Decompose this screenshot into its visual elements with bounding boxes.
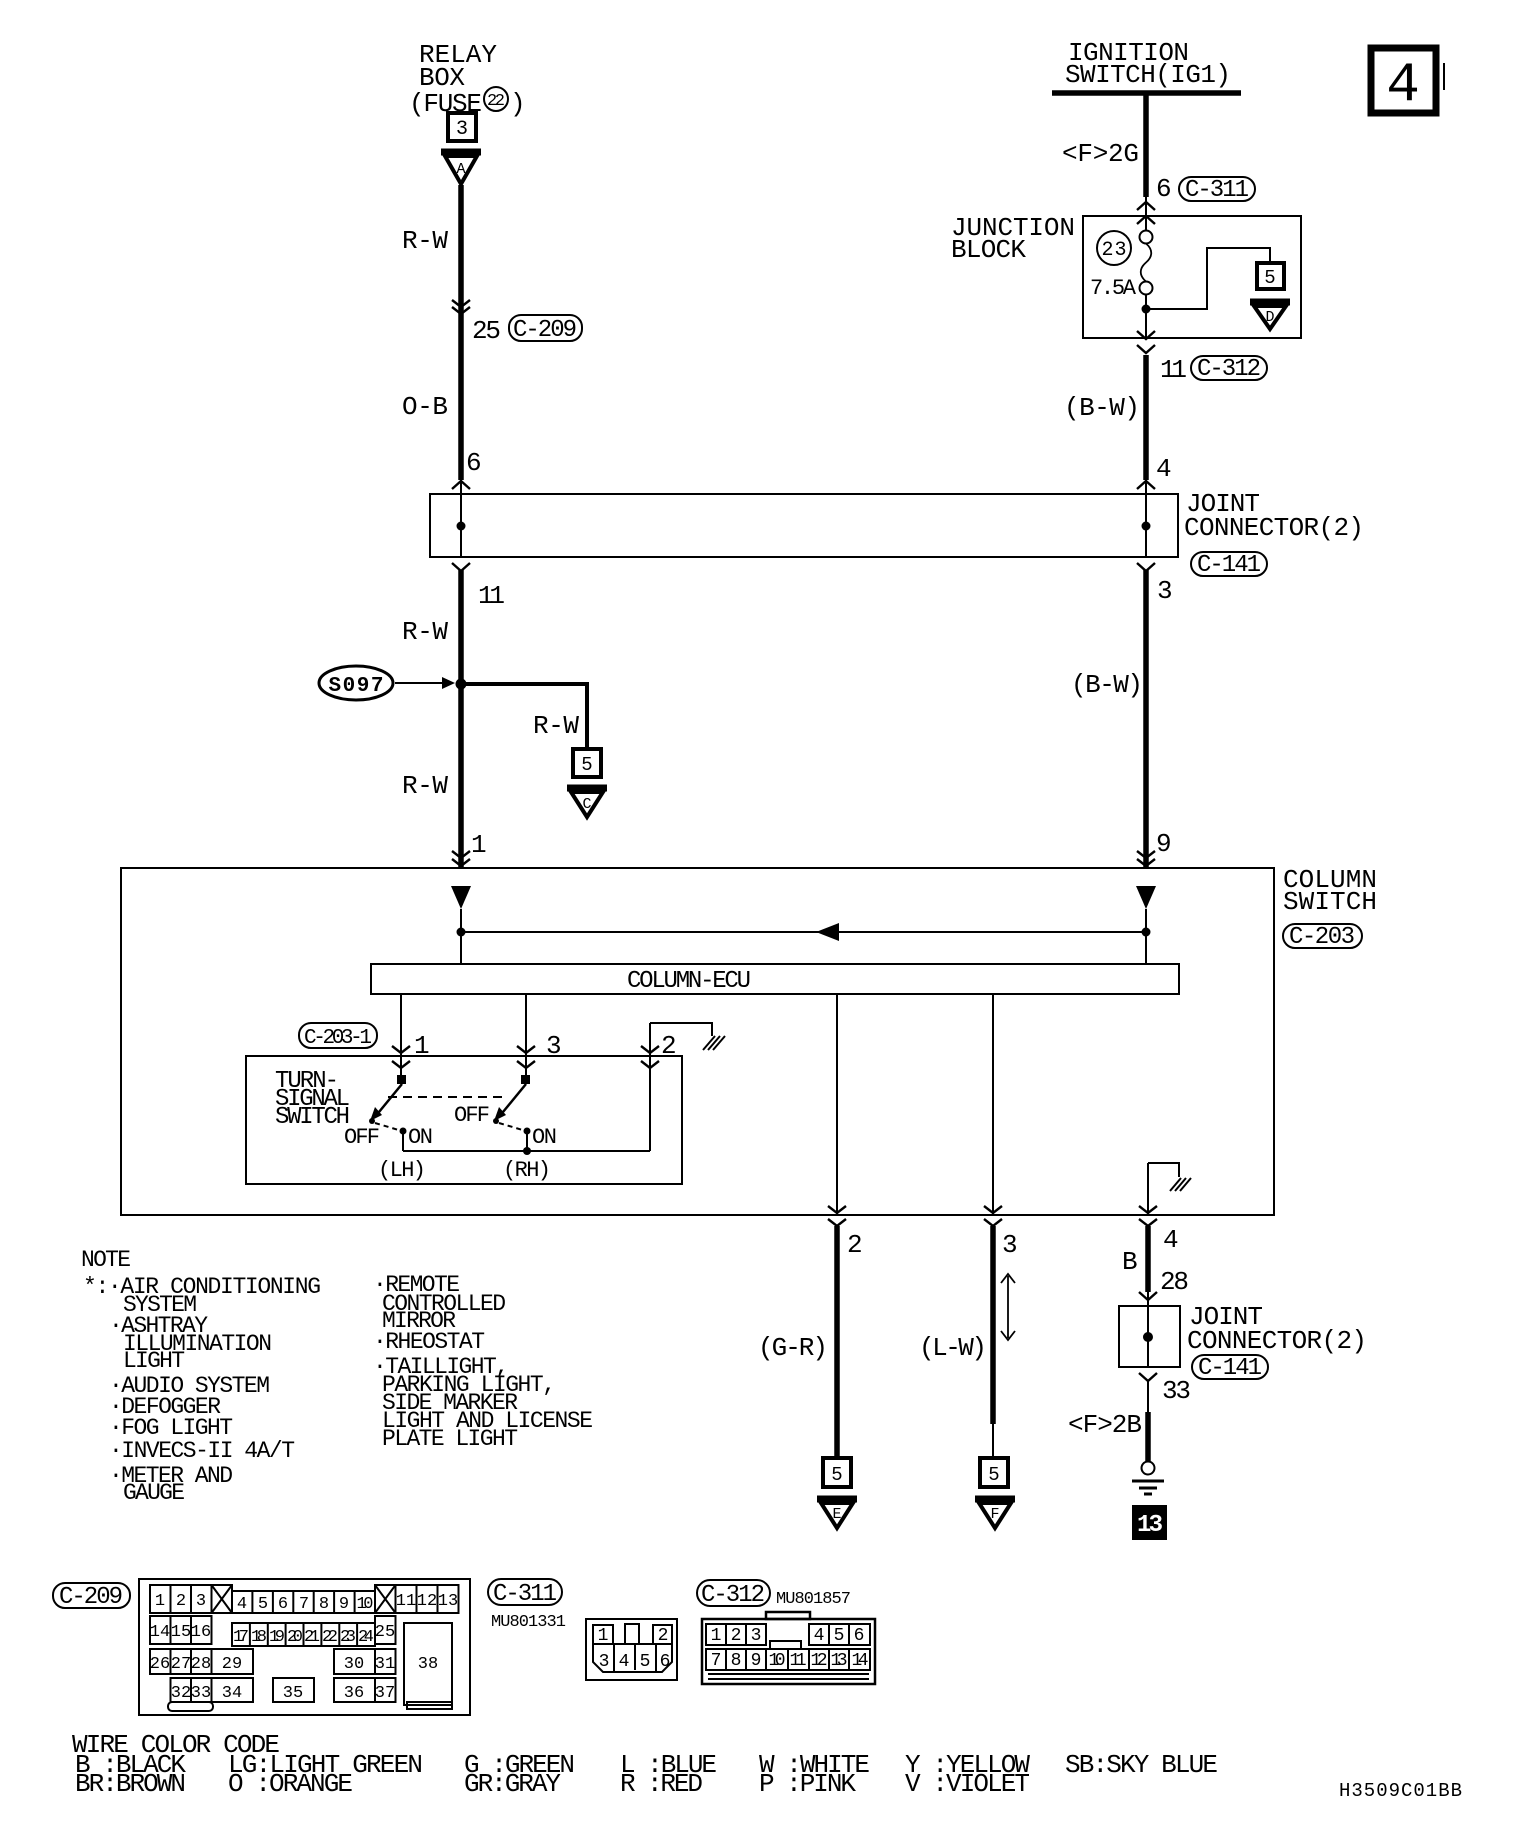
- svg-text:32: 32: [171, 1684, 191, 1703]
- crossing mark left above: [452, 481, 470, 489]
- joint connector (2) box: [430, 494, 1178, 557]
- crossing mark right above: [1137, 481, 1155, 489]
- svg-text:A: A: [456, 161, 465, 178]
- svg-text:9: 9: [1156, 829, 1172, 859]
- crossing marks TSS pin2: [641, 1046, 659, 1068]
- svg-text:2: 2: [658, 1626, 669, 1646]
- wire internal bus: [461, 931, 1146, 933]
- wire B-W (thick): [1143, 355, 1149, 480]
- svg-text:16: 16: [191, 1623, 211, 1642]
- svg-text:3: 3: [196, 1592, 206, 1611]
- wire fuse to node: [1145, 295, 1147, 339]
- svg-text:): ): [510, 89, 526, 119]
- svg-text:BLOCK: BLOCK: [951, 235, 1026, 265]
- connector C-311 pin numbers: [598, 1626, 671, 1672]
- svg-text:11: 11: [1160, 355, 1187, 385]
- node dot bus left: [457, 928, 466, 937]
- svg-text:<F>2G: <F>2G: [1062, 139, 1139, 169]
- connector C-312 pinout: [702, 1612, 875, 1684]
- wire ecu to TSS pin3: [525, 994, 527, 1075]
- svg-text:*:·AIR CONDITIONING: *:·AIR CONDITIONING: [83, 1274, 321, 1300]
- connector triangle C: [567, 788, 607, 817]
- svg-text:5: 5: [1264, 267, 1275, 289]
- fuse 23 symbol: [1140, 231, 1153, 295]
- node dot bus right: [1142, 928, 1151, 937]
- wire ecu to pin3 bottom: [992, 994, 994, 1215]
- wire to in-block branch: [1146, 248, 1270, 309]
- crossing mark left below: [452, 563, 470, 571]
- svg-text:10: 10: [357, 1595, 374, 1614]
- svg-text:C-311: C-311: [1185, 177, 1249, 204]
- svg-text:31: 31: [375, 1655, 395, 1674]
- svg-text:D: D: [1265, 309, 1274, 326]
- ground chassis pin4: [1170, 1178, 1191, 1191]
- svg-text:SWITCH: SWITCH: [275, 1104, 350, 1131]
- svg-text:F: F: [990, 1506, 999, 1523]
- svg-text:8: 8: [319, 1595, 329, 1614]
- wire to ground thick: [1145, 1412, 1151, 1461]
- svg-text:3: 3: [1157, 576, 1173, 606]
- svg-text:C-311: C-311: [493, 1581, 557, 1608]
- svg-text:25: 25: [472, 316, 501, 346]
- bus arrow left-pointing: [816, 923, 839, 941]
- svg-text:12: 12: [417, 1592, 437, 1611]
- svg-text:33: 33: [191, 1684, 211, 1703]
- crossing marks column switch top left: [452, 851, 470, 866]
- svg-text:C-141: C-141: [1197, 552, 1261, 579]
- svg-text:ON: ON: [408, 1125, 433, 1150]
- wire R-W left main (thick upper): [458, 185, 464, 480]
- svg-text:MU801331: MU801331: [491, 1613, 566, 1632]
- svg-text:C-141: C-141: [1198, 1355, 1262, 1382]
- wire (L-W) thick: [990, 1226, 996, 1424]
- svg-text:O-B: O-B: [402, 392, 448, 422]
- svg-text:·INVECS-II 4A/T: ·INVECS-II 4A/T: [109, 1438, 295, 1464]
- wire R-W left mid (thick): [458, 570, 464, 868]
- wire branch to C (thick): [461, 684, 587, 749]
- svg-text:7.5A: 7.5A: [1090, 276, 1137, 301]
- wire (L-W) thin lower: [992, 1424, 994, 1458]
- svg-text:13: 13: [438, 1592, 458, 1611]
- svg-text:13: 13: [831, 1651, 848, 1671]
- switch RH lever: [493, 1075, 531, 1135]
- svg-text:5: 5: [831, 1464, 842, 1486]
- component RELAY BOX (FUSE 22) label: [409, 40, 526, 119]
- svg-text:17: 17: [233, 1628, 249, 1647]
- svg-text:C-209: C-209: [513, 317, 577, 344]
- junction block box: [951, 213, 1301, 338]
- note text block: [81, 1247, 593, 1506]
- svg-text:3: 3: [599, 1652, 610, 1672]
- svg-text:(L-W): (L-W): [919, 1333, 987, 1363]
- connector C-209 pin numbers: [150, 1592, 458, 1703]
- crossing marks bottom pin4: [1139, 1206, 1157, 1226]
- connector triangle D: [1250, 302, 1290, 329]
- ground ref box 13: [1132, 1505, 1167, 1540]
- node dot left: [457, 522, 466, 531]
- page number box 4: [1371, 48, 1444, 117]
- svg-text:8: 8: [731, 1651, 742, 1671]
- svg-text:30: 30: [344, 1655, 364, 1674]
- svg-text:R :RED: R :RED: [620, 1769, 703, 1799]
- svg-text:NOTE: NOTE: [81, 1247, 131, 1273]
- svg-text:6: 6: [1156, 174, 1172, 204]
- svg-text:12: 12: [811, 1651, 828, 1671]
- svg-text:O :ORANGE: O :ORANGE: [228, 1769, 353, 1799]
- svg-text:25: 25: [375, 1623, 395, 1642]
- svg-text:LIGHT: LIGHT: [123, 1348, 185, 1374]
- svg-text:11: 11: [790, 1651, 807, 1671]
- svg-text:PLATE LIGHT: PLATE LIGHT: [382, 1426, 518, 1452]
- power feed box 5 (E): [823, 1458, 851, 1487]
- svg-text:7: 7: [711, 1651, 722, 1671]
- crossing mark right below: [1137, 563, 1155, 571]
- wire pin4 ground branch: [1148, 1163, 1179, 1215]
- svg-text:P :PINK: P :PINK: [759, 1769, 856, 1799]
- svg-text:SB:SKY BLUE: SB:SKY BLUE: [1065, 1750, 1218, 1780]
- svg-text:5: 5: [834, 1626, 845, 1646]
- svg-text:2: 2: [176, 1592, 186, 1611]
- power feed box 5 (junction block): [1257, 263, 1284, 289]
- svg-text:28: 28: [1160, 1267, 1189, 1297]
- svg-text:1: 1: [471, 830, 487, 860]
- svg-text:5: 5: [988, 1464, 999, 1486]
- node dot S097: [456, 679, 467, 690]
- wire ignition feed (thick): [1143, 93, 1149, 197]
- wire (G-R) thick: [834, 1226, 840, 1458]
- svg-text:CONNECTOR(2): CONNECTOR(2): [1184, 513, 1364, 543]
- svg-text:BR:BROWN: BR:BROWN: [75, 1769, 186, 1799]
- svg-text:CONNECTOR(2): CONNECTOR(2): [1187, 1326, 1367, 1356]
- svg-text:13: 13: [1137, 1512, 1163, 1539]
- power feed box 5 (F): [980, 1458, 1008, 1487]
- svg-text:4: 4: [619, 1652, 630, 1672]
- svg-text:37: 37: [375, 1684, 395, 1703]
- svg-text:·RHEOSTAT: ·RHEOSTAT: [373, 1329, 485, 1355]
- node junction dot: [1142, 305, 1151, 314]
- crossing marks bottom pin3: [984, 1206, 1002, 1226]
- svg-text:SWITCH: SWITCH: [1283, 887, 1377, 917]
- svg-text:19: 19: [269, 1628, 285, 1647]
- double arrow symbol: [1001, 1274, 1015, 1340]
- svg-text:4: 4: [814, 1626, 825, 1646]
- circled 23: [1097, 231, 1131, 265]
- crossing mark 28: [1139, 1292, 1157, 1300]
- svg-text:22: 22: [487, 92, 505, 111]
- svg-text:GAUGE: GAUGE: [123, 1480, 185, 1506]
- wire through joint connector right: [1145, 480, 1147, 558]
- wire to ground thin: [1147, 1381, 1149, 1412]
- svg-text:SWITCH(IG1): SWITCH(IG1): [1065, 60, 1231, 90]
- svg-text:3: 3: [1002, 1230, 1018, 1260]
- crossing marks column switch top right: [1137, 851, 1155, 866]
- svg-text:C-203: C-203: [1289, 924, 1355, 951]
- svg-text:S097: S097: [329, 675, 384, 698]
- svg-text:11: 11: [478, 581, 505, 611]
- svg-text:34: 34: [222, 1684, 242, 1703]
- wire B thick pin4: [1145, 1226, 1151, 1292]
- svg-text:V :VIOLET: V :VIOLET: [905, 1769, 1030, 1799]
- connector C-209 label: [53, 1583, 130, 1611]
- svg-text:21: 21: [304, 1628, 320, 1647]
- wire ON contacts to pin2: [403, 1133, 650, 1151]
- connector triangle A: [441, 152, 481, 184]
- component IGNITION SWITCH(IG1): [1052, 38, 1241, 93]
- COLUMN-ECU bar: [371, 964, 1179, 995]
- svg-text:23: 23: [340, 1628, 356, 1647]
- svg-text:R-W: R-W: [533, 711, 579, 741]
- svg-text:COLUMN-ECU: COLUMN-ECU: [627, 968, 751, 995]
- svg-text:MU801857: MU801857: [776, 1590, 851, 1609]
- svg-text:1: 1: [155, 1592, 165, 1611]
- svg-text:5: 5: [258, 1595, 268, 1614]
- svg-text:OFF: OFF: [344, 1125, 380, 1150]
- svg-text:4: 4: [237, 1595, 247, 1614]
- svg-text:ON: ON: [532, 1125, 557, 1150]
- wire into joint connector (thin): [1147, 1292, 1149, 1367]
- switch LH lever: [369, 1075, 407, 1135]
- svg-text:6: 6: [854, 1626, 865, 1646]
- node dot RH on bus: [523, 1147, 531, 1155]
- svg-text:4: 4: [1156, 454, 1172, 484]
- svg-text:9: 9: [751, 1651, 762, 1671]
- svg-text:6: 6: [278, 1595, 288, 1614]
- svg-text:14: 14: [852, 1651, 869, 1671]
- wire TSS pin2 to ground: [650, 1023, 712, 1151]
- crossing marks bottom pin2: [828, 1206, 846, 1226]
- label JOINT CONNECTOR(2): [1184, 489, 1364, 579]
- connector crossing marks C-311: [1137, 202, 1155, 224]
- svg-text:4: 4: [1163, 1225, 1179, 1255]
- connector C-312 label: [697, 1580, 851, 1609]
- svg-text:1: 1: [711, 1626, 722, 1646]
- connector C-311 label: [488, 1579, 566, 1632]
- label 25 (C-209): [472, 315, 582, 346]
- svg-text:11: 11: [396, 1592, 416, 1611]
- svg-text:H3509C01BB: H3509C01BB: [1339, 1780, 1462, 1802]
- svg-text:(LH): (LH): [378, 1158, 426, 1183]
- connector C-311 pinout: [586, 1619, 677, 1680]
- svg-text:E: E: [832, 1506, 841, 1523]
- svg-text:3: 3: [456, 118, 468, 141]
- svg-text:5: 5: [640, 1652, 651, 1672]
- power feed box 3: [448, 113, 476, 141]
- svg-text:4: 4: [1386, 53, 1420, 117]
- connector triangle E: [817, 1499, 857, 1528]
- svg-text:(G-R): (G-R): [758, 1333, 828, 1363]
- wire ecu to pin2 bottom: [836, 994, 838, 1215]
- connector triangle F: [975, 1499, 1015, 1528]
- wire ecu to TSS pin1: [400, 994, 402, 1075]
- label JOINT CONNECTOR(2) lower: [1187, 1302, 1367, 1382]
- svg-text:29: 29: [222, 1655, 242, 1674]
- splice S097: [319, 666, 455, 700]
- svg-text:(B-W): (B-W): [1071, 670, 1143, 700]
- svg-text:33: 33: [1162, 1376, 1191, 1406]
- svg-text:B: B: [1122, 1247, 1138, 1277]
- wire through joint connector left: [460, 480, 462, 558]
- wire bus to ecu left: [460, 932, 462, 964]
- svg-text:<F>2B: <F>2B: [1068, 1410, 1142, 1440]
- label (C-203-1) stadium: [299, 1023, 377, 1050]
- wire through junction block (thin): [1145, 197, 1147, 231]
- svg-text:23: 23: [1102, 239, 1127, 262]
- connector C-209 pinout: [139, 1579, 470, 1715]
- svg-text:R-W: R-W: [402, 617, 448, 647]
- svg-text:22: 22: [322, 1628, 338, 1647]
- svg-text:7: 7: [299, 1595, 309, 1614]
- arrow into ecu right: [1136, 886, 1156, 932]
- svg-text:6: 6: [660, 1652, 671, 1672]
- svg-text:C-209: C-209: [59, 1584, 123, 1611]
- svg-text:C: C: [582, 796, 591, 813]
- svg-text:C-312: C-312: [701, 1582, 765, 1609]
- svg-text:C-203-1: C-203-1: [304, 1027, 372, 1050]
- crossing mark below joint lower: [1139, 1373, 1157, 1381]
- label (C-311) stadium: [1179, 177, 1255, 204]
- arrow into ecu left: [451, 886, 471, 932]
- connector crossing marks C-209: [452, 300, 470, 314]
- crossing marks TSS pin1: [392, 1046, 410, 1068]
- svg-text:15: 15: [171, 1623, 191, 1642]
- earth ground symbol: [1132, 1462, 1164, 1495]
- svg-text:14: 14: [150, 1623, 170, 1642]
- svg-text:GR:GRAY: GR:GRAY: [464, 1769, 561, 1799]
- svg-text:2: 2: [731, 1626, 742, 1646]
- svg-text:(RH): (RH): [503, 1158, 551, 1183]
- svg-text:9: 9: [339, 1595, 349, 1614]
- svg-text:(B-W): (B-W): [1064, 393, 1140, 423]
- svg-text:R-W: R-W: [402, 226, 448, 256]
- crossing marks TSS pin3: [517, 1046, 535, 1068]
- svg-text:27: 27: [171, 1655, 191, 1674]
- svg-text:26: 26: [150, 1655, 170, 1674]
- turn-signal switch box: [246, 1056, 682, 1184]
- wire B-W right mid (thick): [1143, 570, 1149, 868]
- svg-text:36: 36: [344, 1684, 364, 1703]
- svg-text:20: 20: [287, 1628, 303, 1647]
- svg-text:38: 38: [418, 1655, 438, 1674]
- joint connector (2) lower box: [1119, 1306, 1180, 1367]
- ground chassis pin2: [703, 1036, 725, 1050]
- svg-text:24: 24: [358, 1628, 374, 1647]
- svg-text:R-W: R-W: [402, 771, 448, 801]
- svg-text:10: 10: [769, 1651, 786, 1671]
- svg-text:28: 28: [191, 1655, 211, 1674]
- svg-text:OFF: OFF: [454, 1103, 490, 1128]
- connector crossing marks C-312: [1137, 331, 1155, 353]
- svg-text:3: 3: [751, 1626, 762, 1646]
- svg-text:1: 1: [598, 1626, 609, 1646]
- connector C-312 pin numbers: [711, 1626, 869, 1671]
- power feed box 5 (branch C): [573, 749, 601, 777]
- wire color code legend: [72, 1730, 1218, 1799]
- svg-text:C-312: C-312: [1197, 356, 1261, 383]
- column switch box: [121, 865, 1377, 1215]
- svg-text:5: 5: [581, 754, 592, 776]
- svg-text:35: 35: [283, 1684, 303, 1703]
- wire bus to ecu right: [1145, 932, 1147, 964]
- node dot joint lower: [1143, 1332, 1153, 1342]
- node dot right: [1142, 522, 1151, 531]
- label 11 (C-312): [1160, 355, 1267, 385]
- mechanical coupling dashed: [388, 1096, 505, 1098]
- svg-text:2: 2: [847, 1230, 863, 1260]
- svg-text:18: 18: [251, 1628, 267, 1647]
- svg-text:6: 6: [466, 448, 482, 478]
